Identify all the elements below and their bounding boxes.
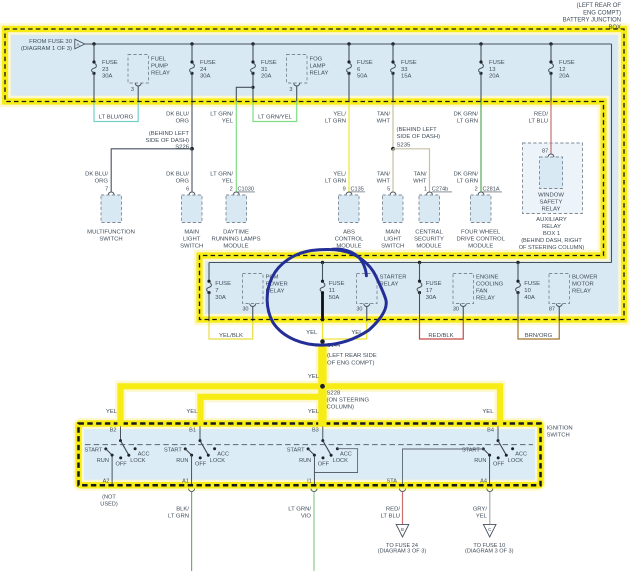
svg-text:RELAY: RELAY <box>542 224 561 230</box>
wire LT BLU/ORG fuse 23 to fuel pump relay <box>94 102 138 122</box>
pin 7 multifunction switch <box>105 187 114 195</box>
relay K starter <box>356 274 406 322</box>
label from fuse 30 <box>21 39 73 52</box>
svg-text:87: 87 <box>549 307 555 313</box>
svg-text:LOCK: LOCK <box>333 458 349 464</box>
svg-text:DK BLU/: DK BLU/ <box>166 172 189 178</box>
svg-text:DK BLU/: DK BLU/ <box>166 112 189 118</box>
svg-text:YEL/BLK: YEL/BLK <box>219 333 243 339</box>
svg-text:LOCK: LOCK <box>508 458 524 464</box>
svg-text:LT GRN: LT GRN <box>168 514 189 520</box>
svg-text:5: 5 <box>387 187 390 193</box>
svg-text:FOUR WHEEL: FOUR WHEEL <box>461 230 501 236</box>
wire TAN/WHT S235 to central security module <box>393 149 430 192</box>
svg-text:OF STEERING COLUMN): OF STEERING COLUMN) <box>519 245 585 251</box>
svg-text:MULTIFUNCTION: MULTIFUNCTION <box>87 230 135 236</box>
label YEL above B4 <box>482 409 494 415</box>
svg-text:TAN/: TAN/ <box>414 172 427 178</box>
svg-text:FUSE: FUSE <box>329 281 345 287</box>
svg-text:CENTRAL: CENTRAL <box>415 230 443 236</box>
svg-text:FUEL: FUEL <box>151 57 167 63</box>
svg-text:13: 13 <box>489 67 496 73</box>
svg-text:B: B <box>401 527 404 532</box>
battery junction box yellow highlight halo <box>5 29 624 320</box>
svg-text:ORG: ORG <box>95 178 109 184</box>
junction on top bus x=481 <box>479 42 482 45</box>
svg-text:23: 23 <box>102 67 109 73</box>
svg-text:30A: 30A <box>102 73 113 79</box>
label YEL above S228 <box>308 374 320 380</box>
svg-text:1: 1 <box>424 187 427 193</box>
svg-text:ORG: ORG <box>176 178 190 184</box>
svg-text:AUXILIARY: AUXILIARY <box>536 217 567 223</box>
wire TAN/WHT S235 to main light switch 2 <box>377 149 393 192</box>
svg-text:LT GRN/: LT GRN/ <box>210 172 233 178</box>
svg-text:ACC: ACC <box>138 452 150 458</box>
wire yellow branch to B1 halo <box>201 397 320 422</box>
auxiliary relay box 1 outline <box>523 143 583 214</box>
wire YEL/LT GRN fuse 6 to ABS control module <box>325 102 349 192</box>
svg-text:LT GRN/: LT GRN/ <box>288 507 311 513</box>
pin 2 C281A four wheel drive control module <box>475 187 502 195</box>
ignition switch bank B3/I1 <box>287 426 352 487</box>
fuse 12 20A <box>549 44 575 102</box>
main light switch 2 <box>381 195 404 250</box>
svg-text:MODULE: MODULE <box>416 244 441 250</box>
svg-text:STARTER: STARTER <box>380 275 407 281</box>
svg-text:30A: 30A <box>215 295 226 301</box>
svg-text:A4: A4 <box>480 478 487 484</box>
wire yellow feed S144 to ignition B3 halo <box>316 344 329 423</box>
wire BLK/LT GRN from A1 <box>168 492 192 571</box>
svg-text:MAIN: MAIN <box>184 230 199 236</box>
svg-text:YEL: YEL <box>306 330 318 336</box>
svg-text:50A: 50A <box>329 295 340 301</box>
wire RED/LT BLU fuse 12 to window safety relay <box>529 102 551 154</box>
multifunction switch <box>87 195 135 243</box>
main light switch 1 <box>180 195 203 250</box>
svg-text:(DIAGRAM 3 OF 3): (DIAGRAM 3 OF 3) <box>465 549 514 555</box>
svg-text:30: 30 <box>356 307 362 313</box>
battery junction box yellow highlight <box>5 29 624 320</box>
svg-text:10: 10 <box>524 288 531 294</box>
svg-text:START: START <box>84 448 102 454</box>
svg-text:OFF: OFF <box>195 462 207 468</box>
svg-text:RUN: RUN <box>97 458 109 464</box>
svg-text:ORG: ORG <box>176 118 190 124</box>
junction on middle bus x=322.5 <box>321 261 324 264</box>
svg-text:PUMP: PUMP <box>151 64 168 70</box>
connector arrow A from fuse 30 <box>75 39 85 49</box>
svg-text:ACC: ACC <box>515 452 527 458</box>
relay K engine cooling fan <box>453 274 504 322</box>
svg-text:RELAY: RELAY <box>476 296 495 302</box>
svg-text:FROM FUSE 30: FROM FUSE 30 <box>29 39 73 45</box>
svg-text:(LEFT REAR SIDE: (LEFT REAR SIDE <box>327 353 377 359</box>
battery junction box blue fill <box>5 29 624 320</box>
svg-text:SWITCH: SWITCH <box>99 237 122 243</box>
svg-text:31: 31 <box>261 67 268 73</box>
svg-text:SECURITY: SECURITY <box>414 237 444 243</box>
label YEL above B3 <box>308 409 320 415</box>
wire yellow B4 drop over border <box>497 420 503 427</box>
splice S144 <box>320 339 377 366</box>
svg-text:50A: 50A <box>357 73 368 79</box>
svg-text:SWITCH: SWITCH <box>381 244 404 250</box>
svg-text:BRN/ORG: BRN/ORG <box>525 333 553 339</box>
svg-text:FUSE: FUSE <box>102 60 118 66</box>
svg-text:RED/: RED/ <box>386 507 400 513</box>
svg-text:DK BLU/: DK BLU/ <box>85 172 108 178</box>
svg-text:20A: 20A <box>261 73 272 79</box>
svg-text:OFF: OFF <box>493 462 505 468</box>
svg-text:20A: 20A <box>559 73 570 79</box>
label battery junction box location <box>563 3 622 31</box>
pin 5 main light switch 2 <box>387 187 396 195</box>
junction on top bus x=253 <box>251 42 254 45</box>
svg-text:LT GRN/: LT GRN/ <box>210 112 233 118</box>
svg-text:MODULE: MODULE <box>468 244 493 250</box>
svg-text:LAMP: LAMP <box>310 64 326 70</box>
fuse 13 20A <box>479 44 505 102</box>
svg-text:DK GRN/: DK GRN/ <box>453 112 478 118</box>
svg-text:SWITCH: SWITCH <box>547 433 570 439</box>
junction on top bus x=551 <box>549 42 552 45</box>
svg-text:(DIAGRAM 3 OF 3): (DIAGRAM 3 OF 3) <box>378 549 427 555</box>
svg-text:VIO: VIO <box>301 514 312 520</box>
svg-text:ABS: ABS <box>343 230 355 236</box>
svg-text:SIDE OF DASH): SIDE OF DASH) <box>145 138 189 144</box>
ignition switch box yellow highlight halo <box>79 424 541 486</box>
junction on middle bus x=518 <box>516 261 519 264</box>
svg-text:FUSE: FUSE <box>200 60 216 66</box>
wire RED/BLK fuse 17 to engine cooling fan relay <box>420 321 464 339</box>
wire LT GRN/YEL fuse 31 to fog lamp relay <box>253 102 297 122</box>
svg-text:DK GRN/: DK GRN/ <box>453 172 478 178</box>
svg-text:17: 17 <box>426 288 433 294</box>
svg-text:A1: A1 <box>182 478 189 484</box>
svg-text:RELAY: RELAY <box>310 71 329 77</box>
wire feed down right corridor <box>611 44 613 263</box>
wire RED/LT BLU from STA <box>381 492 403 524</box>
svg-text:MODULE: MODULE <box>223 244 248 250</box>
ignition switch mechanical link line <box>85 444 533 446</box>
label auxiliary relay box 1 <box>519 217 585 251</box>
svg-text:OFF: OFF <box>116 462 128 468</box>
ignition switch internal STA to START link <box>387 449 484 486</box>
fuse 11 50A <box>320 263 344 322</box>
junction on top bus x=94 <box>92 42 95 45</box>
junction on top bus x=192 <box>190 42 193 45</box>
central security module <box>414 195 444 250</box>
wire TAN/WHT fuse 33 to S235 <box>377 102 393 149</box>
svg-text:START: START <box>287 448 305 454</box>
svg-text:FUSE: FUSE <box>401 60 417 66</box>
svg-text:LT GRN: LT GRN <box>457 118 478 124</box>
battery junction box dashed border <box>5 29 624 320</box>
fuse 6 50A <box>347 44 373 102</box>
svg-text:RELAY: RELAY <box>542 207 561 213</box>
svg-text:YEL: YEL <box>186 409 198 415</box>
ABS control module <box>335 195 365 250</box>
svg-text:(BEHIND LEFT: (BEHIND LEFT <box>397 127 438 133</box>
svg-text:STA: STA <box>387 478 398 484</box>
svg-text:RUN: RUN <box>299 458 311 464</box>
wire yellow branch to B1 <box>201 397 320 422</box>
wire DK GRN/LT GRN fuse 13 to four wheel drive control module <box>453 102 481 192</box>
svg-text:11: 11 <box>329 288 335 294</box>
svg-text:TAN/: TAN/ <box>377 112 390 118</box>
ignition switch internal I1 to ACC link <box>314 449 357 473</box>
wire fuse 31 branch to daytime running lamps module <box>210 87 253 192</box>
svg-text:(ON STEERING: (ON STEERING <box>327 398 370 404</box>
svg-text:ENGINE: ENGINE <box>476 275 499 281</box>
ignition switch box yellow highlight <box>79 424 541 486</box>
pin 1 C274b central security module <box>424 187 452 195</box>
pin A1 connector <box>189 489 195 492</box>
splice S226 <box>145 131 193 151</box>
svg-text:WHT: WHT <box>413 178 427 184</box>
svg-text:B3: B3 <box>312 428 319 434</box>
svg-text:WINDOW: WINDOW <box>538 193 564 199</box>
svg-text:YEL: YEL <box>222 178 234 184</box>
svg-text:FUSE: FUSE <box>357 60 373 66</box>
svg-text:FUSE: FUSE <box>524 281 540 287</box>
svg-text:BLOWER: BLOWER <box>572 275 598 281</box>
wire DK BLU/ORG fuse 24 to S226 <box>166 102 192 149</box>
wire yellow feed S144 to ignition B3 <box>318 344 326 423</box>
fuse 24 30A <box>190 44 216 102</box>
svg-text:(BEHIND LEFT: (BEHIND LEFT <box>149 131 190 137</box>
wire BRN/ORG fuse 10 to blower motor relay <box>518 321 559 339</box>
ignition switch dashed border <box>79 424 541 486</box>
svg-text:12: 12 <box>559 67 566 73</box>
svg-text:(BEHIND DASH, RIGHT: (BEHIND DASH, RIGHT <box>521 238 582 244</box>
svg-text:GRY/: GRY/ <box>473 507 488 513</box>
svg-text:SAFETY: SAFETY <box>540 200 563 206</box>
fuse 17 30A <box>417 263 441 322</box>
svg-text:6: 6 <box>186 187 189 193</box>
svg-text:YEL: YEL <box>106 409 118 415</box>
relay K fuel pump <box>128 55 170 102</box>
svg-text:COOLING: COOLING <box>476 282 504 288</box>
svg-text:3: 3 <box>289 87 292 93</box>
ignition switch box blue fill <box>79 424 541 486</box>
wire middle bus <box>209 262 612 264</box>
fuse 7 30A <box>207 263 231 322</box>
svg-text:START: START <box>164 448 182 454</box>
svg-text:RUNNING LAMPS: RUNNING LAMPS <box>211 237 260 243</box>
svg-text:9: 9 <box>343 187 346 193</box>
svg-text:YEL/: YEL/ <box>333 112 346 118</box>
relay K PCM power <box>242 274 287 322</box>
ignition switch bank B2/A2 <box>84 426 149 487</box>
svg-text:(DIAGRAM 1 OF 3): (DIAGRAM 1 OF 3) <box>21 46 72 52</box>
wire main bus from arrow A <box>85 43 612 45</box>
svg-text:30: 30 <box>242 307 248 313</box>
junction below fuse 31 <box>251 86 254 89</box>
svg-text:LOCK: LOCK <box>210 458 226 464</box>
svg-text:YEL: YEL <box>308 374 320 380</box>
svg-text:LIGHT: LIGHT <box>384 237 402 243</box>
label YEL above B1 <box>186 409 198 415</box>
svg-text:BATTERY JUNCTION: BATTERY JUNCTION <box>563 18 621 24</box>
svg-text:YEL: YEL <box>222 118 234 124</box>
fuse 23 30A <box>92 44 118 102</box>
svg-text:FAN: FAN <box>476 289 487 295</box>
svg-text:WHT: WHT <box>377 118 391 124</box>
svg-text:30A: 30A <box>200 73 211 79</box>
svg-text:30A: 30A <box>426 295 437 301</box>
svg-text:YEL: YEL <box>476 514 488 520</box>
relay K blower motor <box>549 274 598 322</box>
svg-text:BLK/: BLK/ <box>176 507 189 513</box>
connector arrow C to fuse 10 <box>465 524 514 554</box>
svg-text:DRIVE CONTROL: DRIVE CONTROL <box>456 237 505 243</box>
junction on middle bus x=419.5 <box>418 261 421 264</box>
svg-text:LT BLU: LT BLU <box>381 514 400 520</box>
svg-text:OF ENG COMPT): OF ENG COMPT) <box>327 360 374 366</box>
svg-text:RELAY: RELAY <box>572 289 591 295</box>
svg-text:CONTROL: CONTROL <box>335 237 365 243</box>
svg-text:RUN: RUN <box>176 458 188 464</box>
daytime running lamps module <box>211 195 260 250</box>
wire yellow bus to B2 halo <box>121 386 501 422</box>
relay K window safety <box>538 157 564 213</box>
pin I1 connector <box>311 489 317 492</box>
junction on top bus x=393 <box>391 42 394 45</box>
svg-text:FUSE: FUSE <box>261 60 277 66</box>
svg-text:LT GRN: LT GRN <box>325 118 346 124</box>
label ignition switch <box>547 426 573 439</box>
svg-text:3: 3 <box>131 87 134 93</box>
svg-text:IGNITION: IGNITION <box>547 426 573 432</box>
four wheel drive control module <box>456 195 505 250</box>
svg-text:LOCK: LOCK <box>130 458 146 464</box>
svg-text:FOG: FOG <box>310 57 323 63</box>
wire GRY/YEL from A4 <box>473 492 490 524</box>
fuse 31 20A <box>251 44 277 102</box>
svg-text:BOX 1: BOX 1 <box>543 231 560 237</box>
splice S235 <box>391 127 440 151</box>
svg-text:BOX: BOX <box>608 25 621 31</box>
svg-text:RELAY: RELAY <box>151 71 170 77</box>
svg-text:7: 7 <box>215 288 218 294</box>
wire DK BLU/ORG S226 to main light switch <box>166 149 192 192</box>
junction on top bus x=349 <box>347 42 350 45</box>
svg-text:20A: 20A <box>489 73 500 79</box>
svg-text:RED/: RED/ <box>534 112 548 118</box>
svg-text:A: A <box>77 42 80 47</box>
svg-text:MOTOR: MOTOR <box>572 282 594 288</box>
pin A4 connector <box>487 489 493 492</box>
label NOT USED below A2 <box>100 494 118 507</box>
pin STA connector <box>400 489 406 492</box>
svg-text:RED/BLK: RED/BLK <box>428 333 453 339</box>
svg-text:LT GRN/YEL: LT GRN/YEL <box>258 114 293 120</box>
svg-text:SIDE OF DASH): SIDE OF DASH) <box>397 134 441 140</box>
svg-text:LT BLU: LT BLU <box>529 118 548 124</box>
wire YEL fuse 11 to starter relay <box>306 321 367 339</box>
svg-text:COLUMN): COLUMN) <box>327 405 355 411</box>
svg-text:(NOT: (NOT <box>102 494 116 500</box>
svg-text:ACC: ACC <box>217 452 229 458</box>
svg-text:FUSE: FUSE <box>426 281 442 287</box>
svg-text:ENG COMPT): ENG COMPT) <box>583 10 621 16</box>
svg-text:OFF: OFF <box>318 462 330 468</box>
svg-text:LT GRN: LT GRN <box>457 178 478 184</box>
pin 6 main light switch <box>186 187 195 195</box>
svg-text:FUSE: FUSE <box>215 281 231 287</box>
wire DK BLU/ORG S226 to multifunction switch <box>85 149 192 192</box>
svg-text:C: C <box>488 527 491 532</box>
relay K fog lamp <box>287 55 329 102</box>
fuse 10 40A <box>516 263 540 322</box>
svg-text:SWITCH: SWITCH <box>180 244 203 250</box>
pin 2 C1030 daytime running lamps module <box>230 187 255 195</box>
wire yellow B2 drop over border <box>117 420 123 427</box>
wire yellow B1 drop over border <box>197 420 203 427</box>
wire LT GRN/VIO from I1 <box>288 492 314 571</box>
svg-text:S228: S228 <box>327 390 341 396</box>
svg-text:MAIN: MAIN <box>385 230 400 236</box>
svg-text:87: 87 <box>542 149 548 155</box>
svg-text:RUN: RUN <box>474 458 486 464</box>
svg-text:ACC: ACC <box>340 452 352 458</box>
svg-text:LIGHT: LIGHT <box>183 237 201 243</box>
svg-text:TAN/: TAN/ <box>377 172 390 178</box>
svg-text:B1: B1 <box>189 428 196 434</box>
svg-text:LT GRN: LT GRN <box>325 178 346 184</box>
svg-text:USED): USED) <box>100 501 118 507</box>
svg-text:33: 33 <box>401 67 408 73</box>
svg-text:YEL: YEL <box>308 409 320 415</box>
svg-text:DAYTIME: DAYTIME <box>223 230 249 236</box>
svg-text:S235: S235 <box>397 142 411 148</box>
label YEL above B2 <box>106 409 118 415</box>
svg-text:FUSE: FUSE <box>559 60 575 66</box>
svg-text:2: 2 <box>475 187 478 193</box>
svg-text:2: 2 <box>230 187 233 193</box>
svg-text:15A: 15A <box>401 73 412 79</box>
svg-text:7: 7 <box>105 187 108 193</box>
ignition switch bank B1/A1 <box>164 426 229 487</box>
svg-text:I1: I1 <box>307 478 312 484</box>
svg-text:B2: B2 <box>110 428 117 434</box>
svg-text:YEL/: YEL/ <box>333 172 346 178</box>
wire YEL/BLK fuse 7 to PCM power relay <box>209 321 253 339</box>
fuse 33 15A <box>391 44 417 102</box>
svg-text:S226: S226 <box>175 145 189 151</box>
svg-text:LT BLU/ORG: LT BLU/ORG <box>99 114 134 120</box>
svg-text:YEL: YEL <box>482 409 494 415</box>
svg-text:A2: A2 <box>103 478 110 484</box>
wire yellow bus to B2 <box>121 386 501 422</box>
svg-text:FUSE: FUSE <box>489 60 505 66</box>
pin 9 C135 ABS control module <box>343 187 365 195</box>
svg-text:30: 30 <box>453 307 459 313</box>
svg-text:40A: 40A <box>524 295 535 301</box>
ignition switch bank B4/A4 <box>462 426 527 487</box>
svg-text:START: START <box>462 448 480 454</box>
pin 87 window safety relay <box>542 149 554 157</box>
splice S228 <box>320 384 369 411</box>
blue pen tail stroke <box>333 249 367 276</box>
svg-text:24: 24 <box>200 67 207 73</box>
connector arrow B to fuse 24 <box>378 524 427 554</box>
wire yellow B3 drop over border <box>318 420 326 427</box>
blue pen circle around fuse 11 <box>267 249 386 345</box>
